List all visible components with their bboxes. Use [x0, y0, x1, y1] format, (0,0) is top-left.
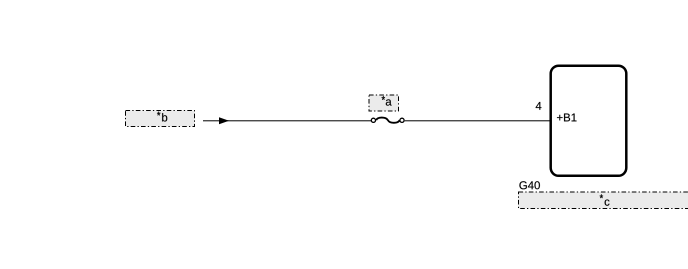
wire (from fuse to component G40 pin 4)	[404, 120, 550, 122]
wire (from *b to fuse, with direction arrow)	[203, 120, 372, 122]
component G40 body	[551, 66, 627, 176]
node *c (shield/connector box)	[519, 192, 688, 209]
node *b (source connector box)	[126, 111, 195, 127]
component designator G40	[519, 181, 540, 189]
label *b	[157, 112, 160, 116]
node *a (fuse label box)	[369, 95, 399, 111]
fuse *a	[371, 118, 404, 123]
pin number 4	[536, 102, 542, 110]
label *c	[600, 194, 603, 198]
pin name +B1	[557, 114, 576, 122]
arrowhead	[219, 117, 229, 124]
label *a	[382, 96, 385, 100]
